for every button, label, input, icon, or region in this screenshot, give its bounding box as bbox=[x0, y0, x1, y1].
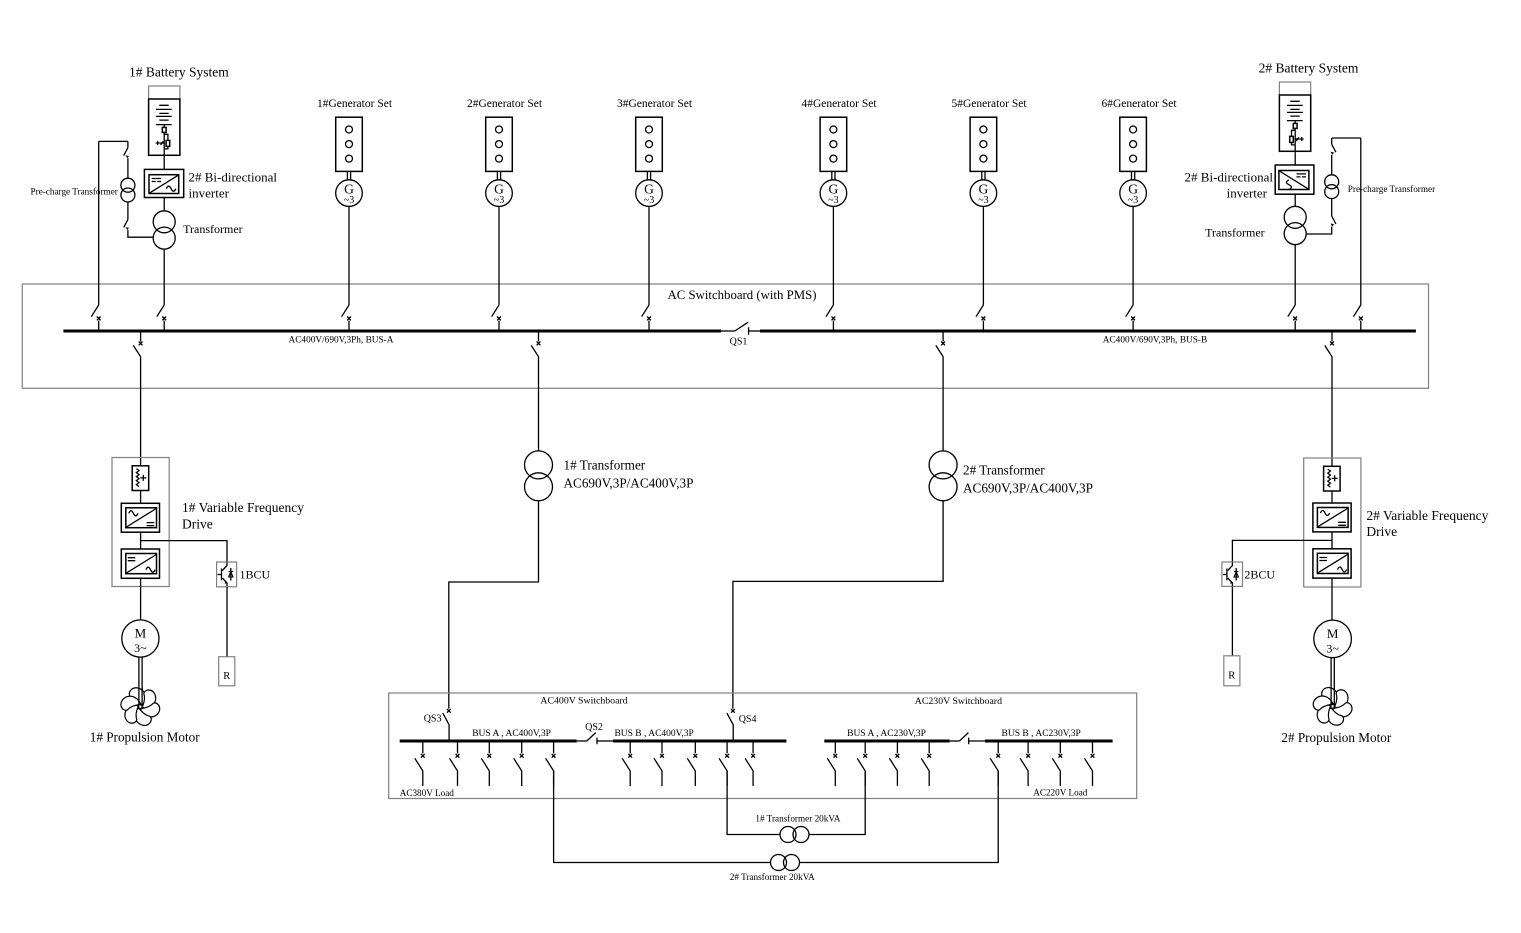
svg-text:AC400V/690V,3Ph, BUS-B: AC400V/690V,3Ph, BUS-B bbox=[1103, 336, 1207, 346]
battery B2 cell compartment bbox=[1279, 95, 1310, 151]
wire bus to VFD1 bbox=[140, 357, 142, 466]
switch pre-charge 1 upper bbox=[124, 141, 129, 158]
wire pre-charge return to transformer T1 bbox=[128, 230, 153, 237]
feeder breaker B400-2 bbox=[654, 742, 664, 786]
wire transformer 1 to QS3 bbox=[449, 501, 539, 709]
wire chopper 2 to resistor bbox=[1231, 586, 1233, 655]
svg-text:1# Battery System: 1# Battery System bbox=[129, 65, 229, 80]
transformer 2 (690/400) bbox=[929, 451, 957, 501]
svg-text:2# Transformer 20kVA: 2# Transformer 20kVA bbox=[730, 872, 815, 882]
switch QS1 bbox=[721, 322, 760, 335]
breaker G5 bbox=[976, 305, 985, 331]
breaker pre-charge 2 bbox=[1353, 305, 1362, 331]
svg-text:BUS B , AC400V,3P: BUS B , AC400V,3P bbox=[614, 729, 693, 739]
svg-text:Pre-charge Transformer: Pre-charge Transformer bbox=[31, 187, 118, 197]
breaker transformer 1 feed bbox=[531, 331, 540, 357]
VFD1 filter unit bbox=[132, 466, 149, 491]
transformer T1 (battery) bbox=[153, 211, 175, 249]
switch QS4 bbox=[727, 709, 735, 741]
breaker transformer 2 feed bbox=[936, 331, 945, 357]
battery B2 fuse bbox=[1293, 121, 1297, 129]
brake resistor R2 bbox=[1224, 656, 1240, 686]
shaft motor 2 bbox=[1331, 658, 1334, 700]
wire bus to VFD2 bbox=[1331, 357, 1333, 466]
svg-text:R: R bbox=[223, 671, 230, 682]
switch QS3 bbox=[443, 709, 451, 741]
feeder breaker B230-1 bbox=[990, 742, 1000, 786]
svg-text:inverter: inverter bbox=[1227, 185, 1268, 200]
feeder breaker A400-5 bbox=[546, 742, 556, 786]
svg-text:3~: 3~ bbox=[1326, 641, 1339, 655]
wire VFD1 to motor bbox=[140, 578, 142, 620]
motor M1 bbox=[122, 620, 159, 657]
breaker VFD1 feed bbox=[133, 331, 142, 357]
wire pre-charge transformer to lower switch bbox=[127, 202, 129, 220]
svg-text:3#Generator Set: 3#Generator Set bbox=[617, 98, 693, 110]
bus B AC230V bbox=[985, 740, 1113, 743]
inverter 1 (bi-directional) bbox=[144, 169, 183, 197]
wire dc link to brake chopper 2 bbox=[1232, 540, 1332, 562]
propeller 1 bbox=[119, 688, 163, 726]
wire pre-charge right to bus bbox=[1360, 138, 1362, 305]
svg-text:AC Switchboard (with PMS): AC Switchboard (with PMS) bbox=[668, 288, 817, 302]
svg-text:AC400V Switchboard: AC400V Switchboard bbox=[540, 696, 627, 707]
svg-text:AC380V Load: AC380V Load bbox=[400, 788, 455, 798]
VFD2 enclosure bbox=[1304, 458, 1361, 587]
battery B2 contactor branch bbox=[1290, 128, 1296, 145]
svg-text:BUS A , AC400V,3P: BUS A , AC400V,3P bbox=[472, 729, 551, 739]
breaker VFD2 feed bbox=[1325, 331, 1334, 357]
shaft motor 1 bbox=[139, 657, 142, 699]
feeder breaker A400-1 bbox=[415, 742, 425, 786]
generator set G6 bbox=[1120, 117, 1147, 305]
svg-text:2# Bi-directional: 2# Bi-directional bbox=[189, 169, 278, 184]
feeder breaker B400-4 bbox=[719, 742, 729, 786]
svg-text:Drive: Drive bbox=[182, 516, 213, 531]
transformer 1 (690/400) bbox=[525, 451, 553, 501]
feeder breaker A230-1 bbox=[827, 742, 837, 786]
wire transformer T2 to bus bbox=[1294, 245, 1296, 305]
breaker G1 bbox=[342, 305, 351, 331]
feeder breaker A230-2 bbox=[857, 742, 867, 786]
transformer 1 20kVA bbox=[780, 827, 809, 843]
motor M2 bbox=[1314, 620, 1352, 658]
svg-text:1BCU: 1BCU bbox=[240, 568, 271, 582]
VFD2 filter unit bbox=[1324, 466, 1341, 491]
wire dc link to brake chopper bbox=[141, 541, 227, 562]
generator set G3 bbox=[636, 117, 663, 305]
svg-text:2# Transformer: 2# Transformer bbox=[963, 462, 1045, 477]
svg-text:QS4: QS4 bbox=[739, 714, 757, 725]
svg-text:2BCU: 2BCU bbox=[1244, 568, 1275, 582]
svg-text:1# Transformer 20kVA: 1# Transformer 20kVA bbox=[755, 814, 840, 824]
brake resistor R1 bbox=[219, 657, 235, 686]
svg-text:AC230V Switchboard: AC230V Switchboard bbox=[915, 696, 1002, 707]
switch pre-charge 1 lower bbox=[124, 220, 129, 231]
wire pre-charge top link bbox=[99, 140, 128, 142]
bus BUS-B bbox=[760, 330, 1416, 333]
generator set G5 bbox=[970, 117, 997, 305]
bus A AC400V bbox=[400, 740, 577, 743]
svg-text:1# Propulsion Motor: 1# Propulsion Motor bbox=[90, 730, 201, 745]
svg-text:2# Variable Frequency: 2# Variable Frequency bbox=[1366, 508, 1488, 523]
pre-charge transformer 2 bbox=[1325, 175, 1339, 199]
battery B2 polarity switch bbox=[1295, 137, 1303, 141]
svg-text:2# Battery System: 2# Battery System bbox=[1259, 61, 1359, 76]
battery B1 fuse bbox=[162, 125, 166, 133]
switch QS2 bbox=[577, 733, 613, 745]
VFD1 dc link bbox=[140, 532, 142, 549]
svg-text:Drive: Drive bbox=[1366, 524, 1397, 539]
VFD2 dc link bbox=[1331, 532, 1333, 549]
svg-text:AC690V,3P/AC400V,3P: AC690V,3P/AC400V,3P bbox=[564, 476, 694, 491]
svg-text:3~: 3~ bbox=[134, 641, 147, 655]
bus A AC230V bbox=[824, 740, 949, 743]
generator set G2 bbox=[486, 117, 513, 305]
wire battery B1 to inverter bbox=[163, 149, 165, 170]
propeller 2 bbox=[1311, 688, 1355, 726]
wire inverter 1 to transformer bbox=[163, 198, 165, 211]
svg-text:M: M bbox=[1327, 626, 1339, 641]
feeder breaker A400-3 bbox=[481, 742, 491, 786]
svg-text:AC690V,3P/AC400V,3P: AC690V,3P/AC400V,3P bbox=[963, 481, 1093, 496]
feeder breaker B400-3 bbox=[687, 742, 697, 786]
wire pre-charge to bus bbox=[98, 141, 100, 305]
wire transformer T1 to bus bbox=[163, 249, 165, 305]
transformer T2 (battery) bbox=[1284, 206, 1306, 244]
svg-text:M: M bbox=[135, 626, 147, 641]
svg-text:5#Generator Set: 5#Generator Set bbox=[951, 98, 1027, 110]
battery B1 case bbox=[149, 86, 180, 155]
wire transformer 1 20kVA to bus A230 bbox=[809, 771, 865, 835]
feeder breaker B230-3 bbox=[1052, 742, 1062, 786]
VFD1 rectifier AC/DC bbox=[121, 503, 159, 532]
feeder breaker B400-5 bbox=[745, 742, 755, 786]
wire bus to transformer 2 bbox=[942, 357, 944, 451]
svg-text:QS2: QS2 bbox=[585, 722, 603, 733]
svg-text:QS3: QS3 bbox=[424, 714, 442, 725]
LV switchboard enclosure bbox=[389, 693, 1137, 799]
svg-text:BUS B , AC230V,3P: BUS B , AC230V,3P bbox=[1002, 729, 1081, 739]
inverter 2 (bi-directional) bbox=[1275, 165, 1314, 194]
svg-text:2#Generator Set: 2#Generator Set bbox=[467, 98, 543, 110]
wire pre-charge top link right bbox=[1332, 137, 1361, 139]
wire pre-charge transformer 2 to lower switch bbox=[1331, 199, 1333, 216]
wire transformer 2 20kVA to bus B230 bbox=[800, 771, 999, 863]
wire filter to rectifier 2 bbox=[1331, 491, 1333, 503]
breaker battery 2 bbox=[1288, 305, 1297, 331]
wire transformer 2 to QS4 bbox=[733, 501, 943, 709]
generator set G1 bbox=[336, 117, 363, 305]
svg-text:Pre-charge Transformer: Pre-charge Transformer bbox=[1348, 184, 1435, 194]
switch pre-charge 2 upper bbox=[1331, 138, 1336, 155]
svg-text:QS1: QS1 bbox=[730, 337, 748, 348]
VFD2 inverter DC/AC bbox=[1313, 549, 1351, 578]
bus B AC400V bbox=[613, 740, 787, 743]
breaker G2 bbox=[492, 305, 501, 331]
pre-charge transformer 1 bbox=[121, 178, 135, 202]
battery B1 plates bbox=[156, 105, 172, 124]
wire switch to pre-charge transformer bbox=[127, 158, 129, 178]
AC Switchboard enclosure bbox=[22, 284, 1428, 388]
feeder breaker A230-4 bbox=[921, 742, 931, 786]
battery B2 case bbox=[1279, 82, 1310, 151]
svg-text:AC400V/690V,3Ph, BUS-A: AC400V/690V,3Ph, BUS-A bbox=[289, 336, 394, 346]
breaker G3 bbox=[642, 305, 651, 331]
switch bus tie 230V bbox=[950, 733, 985, 745]
generator set G4 bbox=[820, 117, 847, 305]
svg-text:4#Generator Set: 4#Generator Set bbox=[801, 98, 877, 110]
wire bus B400 to transformer 1 20kVA bbox=[727, 771, 780, 835]
svg-text:AC220V Load: AC220V Load bbox=[1033, 788, 1088, 798]
VFD2 rectifier AC/DC bbox=[1313, 503, 1351, 532]
feeder breaker B230-4 bbox=[1085, 742, 1095, 786]
brake chopper 2BCU bbox=[1222, 562, 1243, 586]
feeder breaker B230-2 bbox=[1020, 742, 1030, 786]
svg-text:2# Propulsion Motor: 2# Propulsion Motor bbox=[1281, 730, 1392, 745]
svg-text:1# Transformer: 1# Transformer bbox=[564, 457, 646, 472]
wire filter to rectifier bbox=[140, 491, 142, 504]
wire inverter 2 to transformer bbox=[1294, 194, 1296, 206]
VFD1 inverter DC/AC bbox=[121, 549, 159, 578]
breaker G6 bbox=[1126, 305, 1135, 331]
svg-text:BUS A , AC230V,3P: BUS A , AC230V,3P bbox=[847, 729, 926, 739]
breaker pre-charge 1 bbox=[91, 305, 100, 331]
battery B2 plates bbox=[1287, 101, 1303, 120]
switch pre-charge 2 lower bbox=[1331, 216, 1336, 227]
feeder breaker A400-2 bbox=[450, 742, 460, 786]
svg-text:1# Variable Frequency: 1# Variable Frequency bbox=[182, 500, 304, 515]
breaker G4 bbox=[826, 305, 835, 331]
wire bus to transformer 1 bbox=[538, 357, 540, 451]
wire battery B2 to inverter bbox=[1294, 145, 1296, 165]
battery B1 polarity switch bbox=[156, 141, 164, 145]
svg-text:Transformer: Transformer bbox=[1205, 226, 1265, 240]
battery B1 contactor branch bbox=[164, 132, 170, 149]
feeder breaker B400-1 bbox=[622, 742, 632, 786]
breaker battery 1 bbox=[157, 305, 166, 331]
svg-text:Transformer: Transformer bbox=[183, 222, 243, 236]
svg-text:1#Generator Set: 1#Generator Set bbox=[317, 98, 393, 110]
svg-text:R: R bbox=[1228, 671, 1235, 682]
transformer 2 20kVA bbox=[771, 855, 800, 871]
svg-text:6#Generator Set: 6#Generator Set bbox=[1101, 98, 1177, 110]
wire chopper to resistor bbox=[226, 587, 228, 657]
svg-text:2# Bi-directional: 2# Bi-directional bbox=[1185, 169, 1274, 184]
bus BUS-A bbox=[63, 330, 721, 333]
wire bus A400 to transformer 2 20kVA bbox=[554, 771, 771, 863]
svg-text:inverter: inverter bbox=[189, 185, 230, 200]
brake chopper 1BCU bbox=[217, 562, 237, 587]
wire pre-charge 2 return to transformer T2 bbox=[1306, 227, 1332, 234]
wire switch to pre-charge transformer 2 bbox=[1331, 155, 1333, 175]
VFD1 enclosure bbox=[112, 458, 169, 587]
feeder breaker A230-3 bbox=[889, 742, 899, 786]
feeder breaker A400-4 bbox=[514, 742, 524, 786]
wire VFD2 to motor bbox=[1331, 578, 1333, 620]
battery B1 cell compartment bbox=[149, 99, 180, 155]
